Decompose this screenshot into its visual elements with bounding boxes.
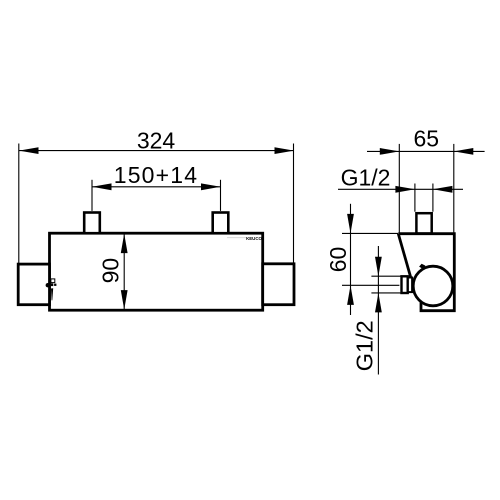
knob circle (side) [413, 266, 453, 306]
arrow 90 top [121, 234, 128, 254]
temperature scale square [51, 279, 55, 283]
side inlet stub [416, 213, 431, 233]
left knob (front) [18, 264, 49, 305]
extension line right (65) [453, 144, 455, 234]
engraved line left of logo [227, 237, 247, 239]
arrow G1/2 vert bottom (pointing up) [375, 293, 382, 313]
arrow 90 bottom [121, 290, 128, 310]
left inlet stub (front) [84, 213, 100, 234]
arrow G1/2 left (pointing right) [395, 186, 415, 193]
outlet flange [402, 276, 408, 293]
extension line right (324) [293, 144, 295, 264]
handle lever sliver [51, 288, 53, 300]
outlet adapter [408, 278, 412, 293]
extension line 60 top (horizontal) [342, 232, 398, 234]
svg-text:KEUCO: KEUCO [246, 236, 262, 241]
marker on knob circle [419, 264, 425, 269]
dimension line G1/2 top [338, 188, 463, 190]
outlet pipe centerline [342, 284, 399, 286]
svg-text:G1/2: G1/2 [341, 164, 391, 190]
svg-text:60: 60 [325, 247, 351, 273]
side body outline [398, 234, 454, 311]
dimension line 324 [19, 150, 294, 152]
arrow G1/2 vert top (pointing down) [375, 257, 382, 277]
side body slanted left edge [398, 234, 411, 278]
temperature scale marks [51, 283, 54, 286]
arrow 65 left (outside pointing right) [380, 148, 400, 155]
svg-text:324: 324 [137, 128, 176, 154]
dimension line G1/2 vertical [377, 246, 379, 375]
dimension line 65 [367, 150, 485, 152]
arrow 60 top (above pointing down) [347, 214, 354, 234]
dimension line 150+14 [92, 186, 221, 188]
dimension line 60 (vertical) [350, 204, 352, 315]
arrow 150+14 left [92, 183, 112, 190]
extension line left stub center (150+14) [91, 180, 93, 211]
dimension line 90 (vertical inside body) [123, 233, 125, 310]
svg-text:150+14: 150+14 [114, 162, 199, 188]
svg-text:G1/2: G1/2 [352, 320, 378, 371]
svg-text:90: 90 [98, 258, 124, 284]
arrow 65 right (outside pointing left) [454, 148, 474, 155]
arrow 150+14 right [201, 183, 221, 190]
arrow G1/2 right (pointing left) [433, 186, 453, 193]
arrow 324 right [275, 147, 295, 154]
extension line left (65) [398, 144, 400, 234]
front view body [50, 233, 263, 310]
extension line right stub center (150+14) [220, 180, 222, 211]
outlet pipe bottom line [371, 292, 401, 294]
extension line stub right (G1/2) [432, 184, 434, 212]
extension line left (324) [18, 144, 20, 264]
right knob (front) [263, 264, 294, 305]
arrow 60 bottom (below pointing up) [347, 285, 354, 305]
svg-text:65: 65 [414, 126, 440, 152]
extension line stub left (G1/2) [414, 184, 416, 212]
outlet pipe top line [371, 275, 401, 277]
arrow 324 left [19, 147, 39, 154]
right inlet stub (front) [213, 213, 229, 234]
temperature stop button dot [46, 283, 50, 287]
